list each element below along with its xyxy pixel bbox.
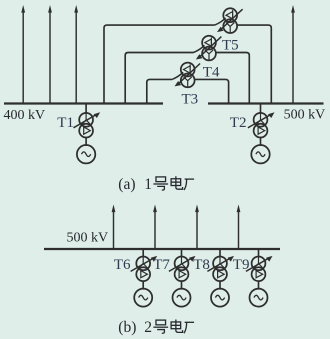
feeder arrow (500 kV bus, plant 1): [291, 5, 295, 104]
transformer T5 (tie transformer, on-load tap changer): [217, 8, 243, 33]
feeder arrow 1 (500 kV bus, plant 2): [112, 205, 116, 250]
svg-text:400 kV: 400 kV: [4, 108, 46, 123]
bus 500 kV (plant 2): [44, 248, 280, 250]
feeder arrow 2 (400 kV bus): [48, 5, 52, 104]
wire: transformer T7 to generator: [181, 281, 183, 290]
svg-text:T4: T4: [203, 64, 220, 80]
svg-text:500 kV: 500 kV: [67, 231, 109, 246]
feeder arrow 4 (500 kV bus, plant 2): [237, 205, 241, 250]
svg-text:500 kV: 500 kV: [284, 108, 326, 123]
wire: 400 kV bus to transformer T3 (left riser): [147, 79, 172, 103]
svg-text:T5: T5: [222, 37, 239, 53]
wire: transformer T5 to 500 kV bus (right drop): [237, 25, 271, 103]
wire: bus to transformer T6: [142, 249, 144, 258]
generator G2: [251, 145, 269, 163]
svg-text:(a): (a): [118, 176, 135, 193]
wire: transformer T9 to generator: [258, 281, 260, 290]
generator G5: [211, 289, 229, 307]
transformer T1 (two-winding, on-load tap changer): [74, 112, 101, 137]
wire: transformer T6 to generator: [142, 281, 144, 290]
wire arc: left lead into upper winding of T3: [172, 72, 183, 79]
wire: 400 kV bus to transformer T4 (left riser): [125, 53, 193, 104]
wire: transformer T3 to 500 kV bus (right drop): [195, 79, 229, 103]
wire: transformer T4 to 500 kV bus (right drop): [216, 53, 249, 104]
generator G1: [77, 145, 95, 163]
svg-text:T8: T8: [193, 257, 210, 273]
transformer T3 (tie transformer, on-load tap changer): [175, 63, 201, 88]
transformer T9 (two-winding, on-load tap changer): [246, 256, 273, 281]
bus 400 kV (plant 1): [4, 102, 163, 104]
wire: bus to transformer T1: [85, 104, 87, 114]
wire arc: left lead into upper winding of T4: [194, 45, 205, 52]
wire: bus to transformer T8: [219, 249, 221, 258]
wire arc: left lead into upper winding of T5: [215, 18, 226, 25]
wire: transformer T2 to generator: [260, 138, 262, 147]
wire: bus to transformer T9: [258, 249, 260, 258]
transformer T6 (two-winding, on-load tap changer): [131, 256, 158, 281]
svg-text:T3: T3: [182, 91, 199, 107]
wire: 400 kV bus to transformer T5 (left riser): [104, 25, 215, 103]
wire: bus to transformer T7: [181, 249, 183, 258]
generator G6: [250, 289, 268, 307]
svg-text:T9: T9: [233, 257, 250, 273]
transformer T2 (two-winding, on-load tap changer): [248, 112, 275, 137]
svg-text:(b): (b): [118, 319, 136, 336]
feeder arrow 1 (400 kV bus): [21, 5, 25, 104]
feeder arrow 3 (400 kV bus): [74, 5, 78, 104]
svg-text:T6: T6: [114, 257, 131, 273]
svg-text:1: 1: [144, 176, 152, 193]
transformer T4 (tie transformer, on-load tap changer): [196, 36, 222, 61]
transformer T8 (two-winding, on-load tap changer): [207, 256, 234, 281]
generator G3: [134, 289, 152, 307]
feeder arrow 2 (500 kV bus, plant 2): [153, 205, 157, 250]
generator G4: [173, 289, 191, 307]
svg-text:T2: T2: [230, 115, 247, 131]
bus 500 kV (plant 1): [208, 102, 324, 104]
feeder arrow 3 (500 kV bus, plant 2): [195, 205, 199, 250]
wire: bus to transformer T2: [260, 104, 262, 114]
transformer T7 (two-winding, on-load tap changer): [169, 256, 196, 281]
wire: transformer T8 to generator: [219, 281, 221, 290]
svg-text:T7: T7: [153, 257, 170, 273]
svg-text:2: 2: [144, 319, 152, 336]
wire: transformer T1 to generator: [85, 138, 87, 147]
svg-text:T1: T1: [57, 115, 74, 131]
